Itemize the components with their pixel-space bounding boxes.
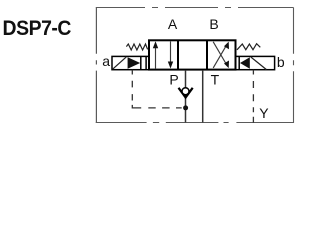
enclosure boundary left (chain line) [95,8,97,124]
enclosure boundary bottom (chain line) [96,122,294,124]
solenoid b diagonal [251,57,266,70]
spring right [237,44,260,50]
valve body divider 1 [177,40,179,69]
solenoid b armature lines [238,56,240,69]
P port line [185,70,187,123]
valve body divider 2 [206,40,208,69]
right position crossed arrow A to T [213,42,229,68]
solenoid a diagonal [113,57,127,69]
right position crossed arrow P to B [213,42,229,68]
enclosure boundary top (chain line) [96,7,294,9]
check valve ball [182,88,189,95]
enclosure boundary right (chain line) [293,8,295,124]
svg-text:B: B [209,16,218,32]
solenoid b triangle [240,57,250,69]
svg-text:P: P [169,71,178,87]
svg-text:DSP7-C: DSP7-C [3,16,72,40]
spring left [126,44,147,50]
svg-text:T: T [211,71,220,87]
drain line from solenoid a (dashed) [132,70,181,108]
svg-text:Y: Y [259,105,269,121]
left position down arrow [168,41,173,68]
solenoid a triangle [128,57,141,69]
left position up arrow [153,41,158,68]
svg-text:A: A [168,16,178,32]
check valve seat [179,88,193,98]
solenoid a armature lines [140,56,142,69]
solenoid b box [236,56,275,69]
valve body outline [149,40,236,69]
svg-text:a: a [102,53,110,69]
T port line [202,70,204,123]
junction dot [183,105,188,110]
drain line Y from solenoid b (dashed) [252,70,254,123]
svg-text:b: b [277,54,285,70]
solenoid a box [112,56,149,69]
